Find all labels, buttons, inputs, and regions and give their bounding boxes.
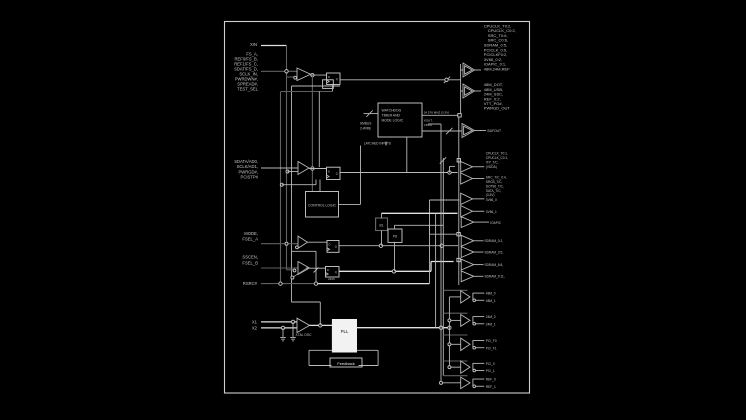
wire U1 out: [311, 74, 327, 76]
svg-text:24.576 MHZ (3.3V): 24.576 MHZ (3.3V): [424, 111, 450, 115]
U15 bubble: [473, 299, 476, 302]
svg-text:Q: Q: [335, 245, 337, 249]
bus slash: [446, 128, 452, 134]
wire P1a out: [473, 166, 485, 168]
group rail 4: [443, 360, 467, 362]
wire MODE in: [261, 243, 298, 245]
wire U18 input: [449, 366, 460, 368]
svg-text:SDRAM_9:11,: SDRAM_9:11,: [485, 275, 505, 279]
junction: [281, 326, 284, 329]
svg-text:MODE,: MODE,: [244, 231, 258, 236]
wire drop x319: [318, 91, 320, 167]
wire B1 bottom: [381, 231, 383, 246]
junction: [279, 282, 282, 285]
junction: [286, 170, 289, 173]
svg-text:LATCHED INPUTS: LATCHED INPUTS: [364, 142, 391, 146]
wire SSC in: [261, 267, 298, 269]
latch U11: [326, 267, 340, 278]
wire SDRAM2 out: [474, 264, 484, 266]
wire U19 out2: [476, 385, 485, 387]
wire U2 out: [309, 168, 327, 170]
svg-text:REF_0: REF_0: [486, 378, 496, 382]
wire U15 tip bar: [472, 293, 474, 301]
wire U6 base: [461, 69, 463, 71]
block PD: [388, 229, 402, 242]
svg-text:Q: Q: [336, 77, 338, 81]
svg-text:SATA_T/C,: SATA_T/C,: [486, 189, 502, 193]
junction: [445, 78, 448, 81]
svg-text:D: D: [328, 75, 330, 79]
junction: [319, 324, 322, 327]
svg-text:PD: PD: [393, 235, 398, 239]
svg-text:Q: Q: [336, 172, 338, 176]
wire PD feeder: [395, 224, 444, 226]
gate SDRAM0: [461, 235, 474, 246]
latch FF1: [327, 73, 340, 85]
wire drop x312: [311, 75, 313, 191]
group rail 5: [443, 375, 467, 377]
pad F input: [457, 258, 460, 261]
wire U17 tip bar: [472, 340, 474, 348]
trunk wire x291: [291, 86, 293, 302]
wire U18 out1: [473, 362, 484, 364]
wire U6 out: [475, 69, 482, 71]
wire U15 out1: [473, 292, 484, 294]
wire FF1 out: [340, 79, 461, 81]
bus slash: [440, 157, 446, 163]
enable bubble U1: [294, 76, 297, 79]
svg-text:SDRAM_6:8,: SDRAM_6:8,: [485, 263, 504, 267]
svg-text:48M,24M,REF: 48M,24M,REF: [484, 67, 510, 72]
wire watchdog out1: [422, 114, 458, 116]
gate SDRAM3: [461, 271, 474, 282]
wire U17 input: [449, 343, 460, 345]
wire watchdog bottom drop: [406, 137, 408, 173]
input buffer U1: [297, 68, 311, 81]
pad: [457, 159, 460, 162]
wire PLL out: [357, 327, 450, 329]
U18 bubble: [473, 369, 476, 372]
wire U16 tip bar: [472, 316, 474, 324]
svg-text:MODE LOGIC: MODE LOGIC: [382, 119, 404, 123]
wire pairB top feeder: [430, 199, 460, 201]
svg-text:TIMER AND: TIMER AND: [382, 114, 401, 118]
U17 bubble: [473, 346, 476, 349]
latch U9: [327, 241, 339, 253]
output buffer U5: [462, 124, 475, 138]
enable bubble: [293, 269, 296, 272]
wire P2b out: [473, 210, 485, 212]
junction: [280, 183, 283, 186]
wire P1b out: [473, 178, 485, 180]
latch FF1b: [323, 80, 334, 89]
junction: [448, 343, 451, 346]
pad terminal: [458, 114, 461, 117]
svg-text:PCI_0: PCI_0: [486, 362, 495, 366]
wire U7 out: [475, 90, 482, 92]
svg-text:48M_0: 48M_0: [486, 292, 496, 296]
svg-text:PWRGD_OUT: PWRGD_OUT: [484, 106, 511, 111]
svg-text:(VDDA): (VDDA): [486, 165, 497, 169]
wire U17 out1: [473, 340, 484, 342]
svg-text:(3.3V): (3.3V): [486, 193, 495, 197]
ground: [280, 337, 286, 339]
wire watchdog corner: [428, 123, 441, 125]
trunk riser x429: [429, 200, 431, 284]
wire U14 out: [474, 221, 489, 223]
gate SDRAM2: [461, 259, 474, 270]
svg-text:BUFOUT: BUFOUT: [488, 129, 502, 133]
wire latch U9 out: [339, 245, 458, 247]
svg-text:CPUCLK_T0:1,: CPUCLK_T0:1,: [486, 152, 508, 156]
output buffer U17: [461, 338, 470, 350]
wire U17 out2: [476, 347, 485, 349]
watchdog logic block U4: [378, 103, 422, 137]
svg-text:240K: 240K: [328, 277, 335, 281]
wire U18 out2: [476, 370, 485, 372]
ground: [290, 337, 296, 339]
trunk x435: [435, 213, 437, 327]
svg-text:CONTROL LOGIC: CONTROL LOGIC: [308, 204, 336, 208]
trunk wire x286: [286, 46, 288, 270]
group rail 2: [443, 312, 467, 314]
svg-text:B1: B1: [380, 224, 384, 228]
junction: [285, 70, 288, 73]
svg-text:XIN: XIN: [250, 42, 257, 47]
output buffer U6: [463, 63, 475, 77]
svg-text:REF_1: REF_1: [486, 385, 496, 389]
watchdog input arrow: [364, 113, 379, 115]
wire U18 tip bar: [472, 363, 474, 371]
wire U3 bottom drop: [319, 180, 321, 192]
wire x286 bend: [287, 269, 294, 271]
junction: [392, 270, 395, 273]
svg-text:IOAPIC: IOAPIC: [490, 221, 502, 225]
gate pair P2 top: [461, 193, 473, 204]
wire P2a out: [473, 198, 485, 200]
wire control out: [339, 203, 361, 205]
wire input row1: [261, 70, 297, 72]
output buffer U15: [461, 291, 470, 303]
bus slash: [444, 77, 450, 83]
wire FF1 side: [292, 85, 341, 87]
input buffer U2: [298, 162, 309, 175]
net riser x361: [360, 146, 362, 205]
wire x280 branch: [282, 184, 316, 186]
wire latch U3 out: [340, 172, 458, 174]
wire U19 tip bar: [472, 379, 474, 387]
junction: [448, 171, 451, 174]
gate pair P1 top: [461, 162, 473, 173]
junction: [448, 366, 451, 369]
wire U10 out: [310, 267, 326, 269]
control logic block: [306, 192, 339, 218]
feedback block: [330, 358, 362, 367]
wire RSRC# right: [316, 283, 430, 285]
junction: [314, 282, 317, 285]
wire thick bus: [382, 212, 458, 214]
wire X2: [261, 327, 297, 329]
output buffer U19: [461, 377, 470, 389]
svg-text:SSCEN,: SSCEN,: [242, 255, 258, 260]
wire PD bottom: [394, 242, 396, 271]
gate pair P2 bottom: [461, 206, 473, 217]
junction: [440, 381, 443, 384]
svg-text:PLL: PLL: [341, 329, 349, 334]
junction: [291, 276, 294, 279]
svg-text:PCI_1: PCI_1: [486, 369, 495, 373]
svg-text:3V66_0: 3V66_0: [486, 198, 497, 202]
wire SDRAM3 out: [474, 275, 484, 277]
svg-text:SMBUS: SMBUS: [360, 122, 371, 126]
svg-text:D: D: [327, 268, 329, 272]
wire U8 out: [308, 241, 328, 243]
wire U15 input: [449, 296, 460, 298]
svg-text:3V66_1: 3V66_1: [486, 210, 497, 214]
svg-text:PCI_F0: PCI_F0: [486, 339, 497, 343]
block B1: [376, 218, 388, 231]
svg-text:CPUCLK_C0:1,: CPUCLK_C0:1,: [486, 156, 508, 160]
svg-text:X2: X2: [252, 325, 258, 330]
svg-text:ITP_T/C,: ITP_T/C,: [486, 160, 499, 164]
svg-text:SDRAM_3:5,: SDRAM_3:5,: [485, 250, 504, 254]
junction: [379, 244, 382, 247]
feedback loop wire: [309, 349, 332, 351]
wire U19 out1: [473, 378, 484, 380]
svg-text:D: D: [328, 170, 330, 174]
gate input trunk upper: [460, 64, 462, 114]
wire U7 base: [461, 90, 463, 92]
svg-text:Q: Q: [335, 270, 337, 274]
output buffer U7: [463, 84, 475, 98]
junction b: [448, 326, 451, 329]
cap stub X1: [292, 322, 294, 337]
svg-text:SRCB_T/C,: SRCB_T/C,: [486, 180, 503, 184]
input buffer U8: [298, 236, 308, 248]
wire XIN: [261, 45, 287, 47]
enable stub U1: [287, 76, 294, 78]
svg-text:24M_0: 24M_0: [486, 315, 496, 319]
wire enable run: [292, 250, 317, 252]
input buffer U10: [298, 262, 310, 275]
gate input trunk x458: [458, 117, 460, 285]
wire U16 out2: [476, 323, 485, 325]
svg-text:48M_1: 48M_1: [486, 299, 496, 303]
wire RSRC# left: [261, 283, 316, 285]
wire PD top stub: [394, 225, 396, 229]
junction: [439, 326, 442, 329]
svg-text:SRC_T/C_0:4,: SRC_T/C_0:4,: [486, 176, 507, 180]
svg-text:WATCHDOG: WATCHDOG: [382, 109, 402, 113]
svg-text:SCLK/AD1,: SCLK/AD1,: [237, 164, 258, 169]
junction: [448, 319, 451, 322]
svg-text:PCI_F1: PCI_F1: [486, 346, 497, 350]
feeder vertical x449: [448, 297, 450, 367]
programming arrow: [294, 268, 308, 277]
osc buffer U12: [297, 318, 310, 332]
U16 bubble: [473, 323, 476, 326]
cap stub X2: [282, 328, 284, 337]
svg-text:TEST_SEL: TEST_SEL: [237, 87, 259, 92]
U19 bubble: [473, 385, 476, 388]
group rail 1: [443, 289, 467, 291]
wire watchdog out2: [422, 130, 462, 132]
wire SDATA in: [261, 167, 298, 169]
junction: [291, 320, 294, 323]
gate pair P1 bottom: [461, 173, 473, 184]
svg-text:XOUT,: XOUT,: [424, 118, 433, 122]
trunk x443: [442, 158, 444, 376]
PLL block U13: [332, 320, 356, 353]
svg-text:Feedback: Feedback: [337, 361, 355, 366]
group rail 3: [443, 334, 467, 336]
svg-text:DOT96_T/C,: DOT96_T/C,: [486, 184, 504, 188]
svg-text:PCISTP#: PCISTP#: [241, 175, 259, 180]
wire U16 out1: [473, 316, 484, 318]
wire B1 top riser: [381, 213, 383, 218]
wire U5 out: [475, 130, 487, 132]
wire SDRAM0 out: [474, 240, 484, 242]
output buffer U16: [461, 315, 470, 327]
ref trunk bend: [292, 301, 321, 303]
wire SDRAM1 out: [474, 251, 484, 253]
wire U19 input: [441, 382, 461, 384]
wire latch U11 out: [339, 270, 431, 272]
latch arrow tick: [314, 268, 319, 273]
wire X1: [261, 321, 297, 323]
svg-text:FSEL_A: FSEL_A: [242, 236, 258, 241]
svg-text:D: D: [329, 243, 331, 247]
svg-text:PWRGD#,: PWRGD#,: [238, 169, 258, 174]
gate U14: [461, 217, 474, 228]
wire D-pad jog: [429, 225, 431, 234]
svg-text:RSRC#: RSRC#: [243, 281, 258, 286]
svg-text:XTAL OSC: XTAL OSC: [296, 333, 313, 337]
junction: [285, 242, 288, 245]
svg-text:2-WIRE: 2-WIRE: [360, 126, 371, 130]
junction: [311, 167, 314, 170]
svg-text:SDATA/AD0,: SDATA/AD0,: [234, 159, 258, 164]
trunk x441: [440, 124, 442, 383]
pad D input: [457, 233, 460, 236]
wire U15 out2: [476, 299, 485, 301]
junction: [440, 244, 443, 247]
svg-text:X1: X1: [252, 320, 258, 325]
wire enable drop x316: [315, 251, 317, 283]
svg-text:24M_1: 24M_1: [486, 322, 496, 326]
latch U3: [327, 167, 341, 179]
junction: [311, 73, 314, 76]
enable bubble: [296, 246, 299, 249]
wire FF1 bottom: [332, 85, 334, 92]
svg-text:FSEL_B: FSEL_B: [242, 261, 258, 266]
output buffer U18: [461, 361, 470, 373]
buffer enable stub: [288, 171, 299, 173]
wire osc out: [310, 324, 333, 326]
trunk wire x280: [280, 92, 282, 284]
svg-text:SDRAM_0:2,: SDRAM_0:2,: [485, 239, 504, 243]
pair A input bracket: [449, 166, 451, 172]
wire U16 input: [449, 319, 460, 321]
gate SDRAM1: [461, 247, 474, 258]
